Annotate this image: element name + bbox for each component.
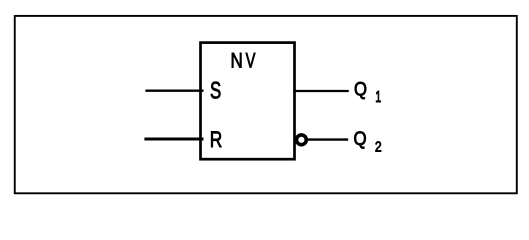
- inversion bubble on Q2: [297, 135, 307, 145]
- wire S input: [145, 90, 203, 92]
- wire Q1 output: [295, 90, 349, 92]
- latch U1 (NV block): [201, 43, 295, 160]
- svg-text:V: V: [246, 49, 256, 72]
- svg-text:1: 1: [375, 89, 381, 106]
- svg-text:R: R: [210, 127, 223, 152]
- svg-text:2: 2: [375, 138, 382, 155]
- wire R input: [144, 138, 203, 141]
- wire Q2 output: [308, 138, 348, 140]
- svg-text:N: N: [231, 49, 243, 72]
- svg-text:Q: Q: [354, 79, 367, 100]
- svg-text:Q: Q: [354, 129, 367, 150]
- svg-text:S: S: [210, 78, 221, 105]
